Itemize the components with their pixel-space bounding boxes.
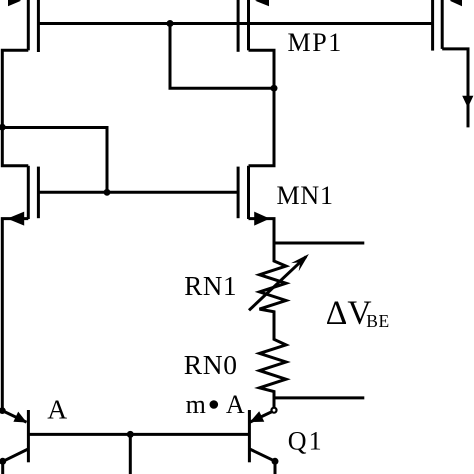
svg-text:MN1: MN1 <box>277 181 334 210</box>
svg-text:ΔV: ΔV <box>326 295 372 332</box>
svg-text:A: A <box>226 390 245 419</box>
svg-text:MP1: MP1 <box>288 28 343 57</box>
svg-text:Q1: Q1 <box>288 427 324 456</box>
svg-text:BE: BE <box>366 311 389 331</box>
svg-text:A: A <box>47 393 67 424</box>
svg-text:RN1: RN1 <box>184 271 237 301</box>
svg-text:m: m <box>186 390 206 419</box>
svg-text:RN0: RN0 <box>184 349 238 380</box>
